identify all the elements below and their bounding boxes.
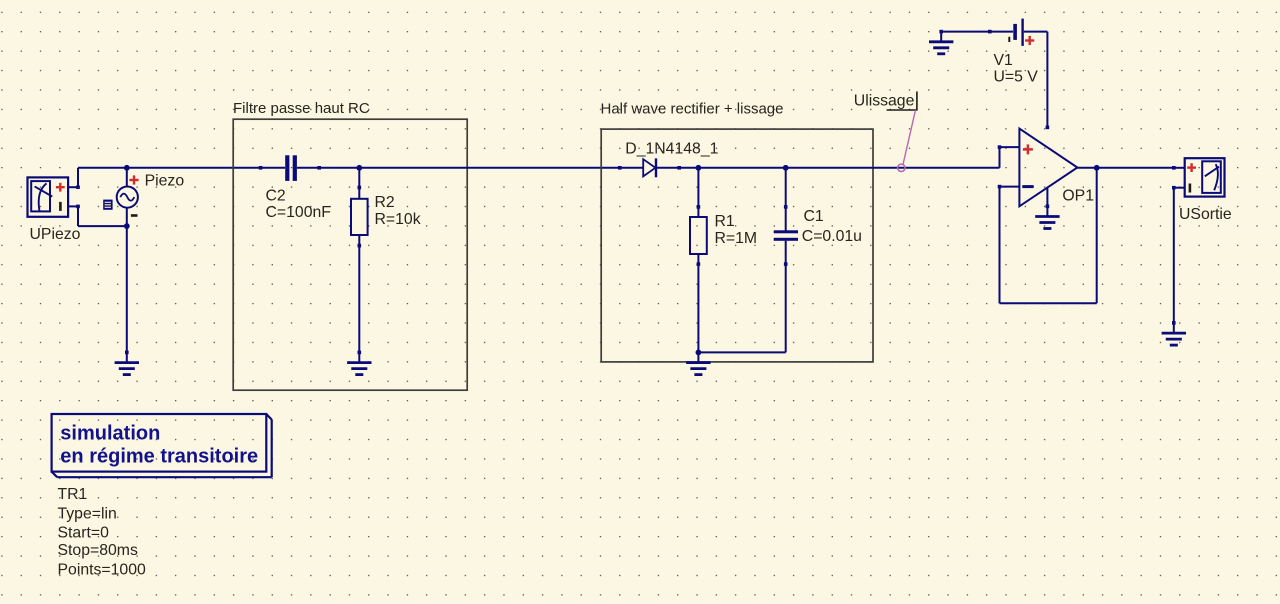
label Filtre passe haut RC — [233, 100, 370, 117]
resistor R2 — [351, 168, 368, 353]
svg-text:Ulissage: Ulissage — [854, 93, 915, 110]
wire — [126, 168, 128, 187]
node junction — [124, 165, 130, 171]
svg-text:OP1: OP1 — [1062, 188, 1094, 205]
svg-text:C2: C2 — [266, 188, 286, 205]
ground — [1162, 321, 1186, 345]
svg-text:Half wave rectifier + lissage: Half wave rectifier + lissage — [601, 101, 784, 118]
value U=5 V — [994, 69, 1039, 86]
ground — [929, 30, 953, 54]
value Points=1000 — [58, 562, 146, 579]
wire — [698, 167, 785, 169]
svg-text:C1: C1 — [804, 208, 824, 225]
svg-text:D_1N4148_1: D_1N4148_1 — [625, 141, 718, 158]
capacitor C2 — [259, 155, 321, 181]
svg-text:Type=lin: Type=lin — [58, 506, 117, 523]
label D_1N4148_1 — [625, 141, 718, 158]
label UPiezo — [30, 226, 81, 243]
label Piezo — [145, 173, 185, 190]
node junction — [696, 350, 702, 356]
value C=0.01u — [802, 228, 862, 245]
label TR1 — [58, 486, 88, 503]
svg-text:en régime transitoire: en régime transitoire — [60, 445, 258, 467]
svg-text:R1: R1 — [715, 213, 735, 230]
wire — [78, 167, 127, 169]
value Start=0 — [58, 525, 110, 542]
wire — [1096, 168, 1098, 303]
svg-text:Piezo: Piezo — [145, 173, 185, 190]
node junction — [124, 223, 130, 229]
label simulation — [60, 423, 160, 445]
svg-text:UPiezo: UPiezo — [30, 226, 81, 243]
wire — [126, 208, 128, 226]
wire — [126, 226, 128, 352]
wire — [359, 167, 620, 169]
diode D_1N4148_1 — [618, 158, 681, 177]
wire — [999, 147, 1001, 168]
svg-text:Stop=80ms: Stop=80ms — [58, 542, 138, 559]
box Half wave rectifier — [601, 129, 873, 362]
ground — [1035, 205, 1059, 229]
wire — [319, 167, 359, 169]
node junction — [783, 165, 789, 171]
ground — [347, 351, 371, 375]
wire — [77, 168, 79, 187]
node junction — [1094, 165, 1100, 171]
value Type=lin — [58, 506, 117, 523]
label USortie — [1179, 206, 1232, 223]
svg-text:R=1M: R=1M — [715, 230, 758, 247]
node junction — [696, 165, 702, 171]
svg-text:C=100nF: C=100nF — [266, 204, 332, 221]
label C2 — [266, 188, 286, 205]
op-amp OP1 — [998, 32, 1078, 207]
label en regime transitoire — [60, 445, 258, 467]
label R1 — [715, 213, 735, 230]
svg-text:Points=1000: Points=1000 — [58, 562, 146, 579]
label Ulissage — [854, 93, 915, 110]
wire — [786, 167, 1000, 169]
svg-text:U=5 V: U=5 V — [994, 69, 1039, 86]
svg-text:USortie: USortie — [1179, 206, 1232, 223]
wire — [1173, 188, 1175, 323]
value Stop=80ms — [58, 542, 138, 559]
value R=1M — [715, 230, 758, 247]
label C1 — [804, 208, 824, 225]
voltmeter USortie — [1172, 158, 1225, 196]
svg-text:R=10k: R=10k — [375, 211, 421, 228]
svg-text:V1: V1 — [994, 52, 1014, 69]
label V1 — [994, 52, 1014, 69]
label OP1 — [1062, 188, 1094, 205]
node Ulissage — [887, 92, 918, 172]
wire — [941, 31, 990, 33]
svg-text:C=0.01u: C=0.01u — [802, 228, 862, 245]
capacitor C1 — [774, 168, 798, 353]
ground — [115, 351, 139, 375]
value R=10k — [375, 211, 421, 228]
simulation TR1 box — [52, 414, 272, 477]
wire — [999, 187, 1001, 304]
wire — [698, 351, 785, 353]
svg-text:R2: R2 — [375, 194, 395, 211]
wire — [1000, 302, 1097, 304]
label R2 — [375, 194, 395, 211]
voltmeter UPiezo — [28, 177, 80, 216]
battery V1 — [988, 19, 1047, 46]
svg-text:TR1: TR1 — [58, 486, 88, 503]
resistor R1 — [690, 168, 707, 353]
wire — [127, 167, 261, 169]
label Half wave rectifier + lissage — [601, 101, 784, 118]
source Piezo — [103, 175, 138, 216]
wire — [77, 206, 79, 226]
wire — [679, 167, 698, 169]
ground — [686, 351, 710, 375]
svg-text:Start=0: Start=0 — [58, 525, 110, 542]
svg-text:simulation: simulation — [60, 423, 160, 445]
svg-text:Filtre passe haut RC: Filtre passe haut RC — [233, 100, 370, 117]
node junction — [356, 165, 362, 171]
box Filtre passe haut RC — [233, 119, 467, 390]
value C=100nF — [266, 204, 332, 221]
wire — [1077, 167, 1173, 169]
wire — [78, 225, 127, 227]
